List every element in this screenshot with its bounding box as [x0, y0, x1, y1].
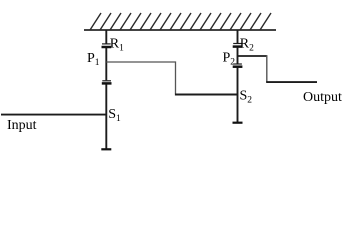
svg-text:R2: R2: [240, 37, 254, 54]
wire left branch upper (support to R1): [105, 30, 107, 44]
node P2 / output wire: [238, 55, 268, 57]
wire left branch (R1 to P1 contact): [105, 48, 107, 80]
svg-text:Output: Output: [303, 90, 342, 105]
wire right branch upper (support to R2): [237, 30, 239, 44]
svg-text:P1: P1: [87, 51, 100, 68]
wire to S2 lower run: [175, 94, 238, 96]
svg-text:P2: P2: [223, 51, 236, 68]
relay contact R2: [233, 44, 243, 47]
relay contact P2: [233, 64, 243, 67]
node P1 / wire to S2 upper run: [106, 62, 175, 94]
input wire: [1, 114, 106, 116]
wire right branch (P2 contact to bottom): [237, 68, 239, 123]
wire right branch (R2 to node P2): [237, 48, 239, 64]
relay contact P1: [102, 81, 112, 84]
svg-text:S1: S1: [108, 107, 121, 124]
armature end right: [233, 122, 243, 124]
armature end left: [101, 148, 111, 150]
fixed support hatched bar: [84, 13, 276, 30]
svg-text:R1: R1: [110, 37, 124, 54]
svg-text:S2: S2: [240, 89, 253, 106]
relay contact R1: [102, 44, 112, 47]
wire left branch (P1 contact to bottom): [105, 84, 107, 148]
svg-text:Input: Input: [7, 118, 37, 133]
